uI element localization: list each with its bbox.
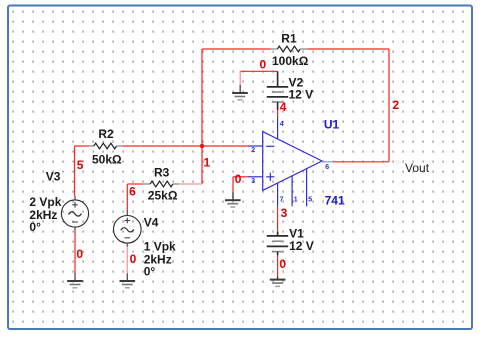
svg-text:R1: R1 <box>281 32 297 46</box>
svg-text:R2: R2 <box>98 127 114 141</box>
ground GND2 below pin3 wire <box>225 192 241 207</box>
svg-text:4: 4 <box>280 121 284 128</box>
svg-text:3: 3 <box>281 206 288 220</box>
wire V1 to ground <box>277 255 279 279</box>
wire V3 to ground <box>74 227 76 281</box>
svg-text:25kΩ: 25kΩ <box>148 189 178 203</box>
svg-text:V4: V4 <box>144 216 159 230</box>
wire feedback right vertical <box>388 49 390 162</box>
pin 4 stub <box>277 117 279 140</box>
svg-text:3: 3 <box>251 178 255 185</box>
wire feedback top left <box>202 48 271 50</box>
svg-text:0: 0 <box>260 58 267 72</box>
svg-text:6: 6 <box>129 184 136 198</box>
battery V1 <box>267 232 288 256</box>
svg-text:U1: U1 <box>324 118 340 132</box>
svg-text:V3: V3 <box>46 169 61 183</box>
wire V4 to ground <box>126 243 128 281</box>
svg-text:1: 1 <box>294 196 298 203</box>
wire V3 branch <box>75 146 89 196</box>
wire feedback top right <box>307 48 389 50</box>
svg-text:12 V: 12 V <box>289 87 314 101</box>
wire pin3 to ground <box>233 177 248 193</box>
ground GND3 below V1 <box>270 280 286 287</box>
ground GND1 near V2 <box>232 85 248 100</box>
resistor R1 <box>271 46 308 52</box>
resistor R2 <box>89 143 123 149</box>
svg-text:0: 0 <box>235 172 242 186</box>
svg-text:4: 4 <box>280 100 287 114</box>
svg-text:5: 5 <box>308 196 312 203</box>
svg-text:50kΩ: 50kΩ <box>92 153 122 167</box>
wire pin7 to V1 <box>277 206 279 231</box>
pin 1 stub <box>291 176 293 207</box>
svg-text:0: 0 <box>76 247 83 261</box>
wire feedback left vertical <box>201 49 203 184</box>
junction node 1 <box>200 144 204 148</box>
wire output <box>334 161 390 163</box>
pin 2 stub <box>248 145 263 147</box>
svg-text:1: 1 <box>204 155 211 169</box>
svg-text:741: 741 <box>325 194 345 208</box>
svg-text:2: 2 <box>393 98 400 112</box>
svg-text:2: 2 <box>251 147 255 154</box>
wire net0 corner to V2 top <box>240 71 277 87</box>
svg-text:Vout: Vout <box>405 161 430 175</box>
ground GND4 below V3 <box>67 281 83 288</box>
op-amp U1 triangle <box>263 132 322 191</box>
wire input R2 to pin2 <box>123 145 248 147</box>
wire V4 branch <box>127 184 143 210</box>
svg-text:0°: 0° <box>29 220 41 234</box>
svg-text:7: 7 <box>280 196 284 203</box>
svg-text:2 Vpk: 2 Vpk <box>29 195 61 209</box>
svg-text:0: 0 <box>279 257 286 271</box>
svg-text:R3: R3 <box>154 166 170 180</box>
svg-text:6: 6 <box>325 164 329 171</box>
wire V2 to pin4 <box>277 110 279 117</box>
pin 7 stub <box>277 183 279 206</box>
pin 3 stub <box>248 176 263 178</box>
svg-text:100kΩ: 100kΩ <box>272 54 309 68</box>
ground GND5 below V4 <box>120 281 136 288</box>
resistor R3 <box>143 181 179 187</box>
svg-text:1 Vpk: 1 Vpk <box>144 239 176 253</box>
source V3 <box>61 196 88 227</box>
svg-text:5: 5 <box>77 158 84 172</box>
svg-text:12 V: 12 V <box>289 239 314 253</box>
battery V2 <box>267 71 288 110</box>
source V4 <box>114 210 142 243</box>
wire R3 to node1 <box>179 183 202 185</box>
pin 6 stub <box>322 161 334 163</box>
svg-text:0°: 0° <box>144 265 156 279</box>
pin 5 stub <box>306 169 308 207</box>
svg-text:0: 0 <box>130 252 137 266</box>
